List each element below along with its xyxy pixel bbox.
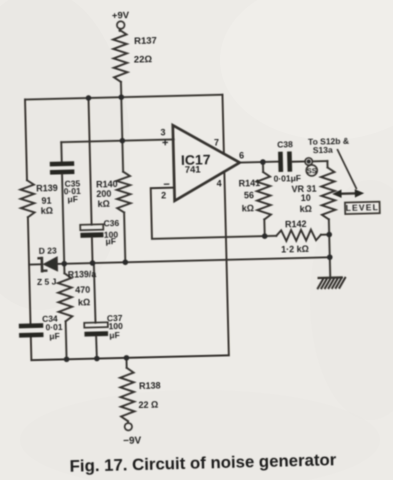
svg-text:kΩ: kΩ bbox=[41, 206, 53, 216]
svg-text:22Ω: 22Ω bbox=[134, 54, 153, 65]
svg-text:R141: R141 bbox=[239, 178, 261, 189]
svg-text:SS: SS bbox=[307, 166, 317, 175]
svg-text:22 Ω: 22 Ω bbox=[138, 400, 158, 410]
svg-text:3: 3 bbox=[160, 127, 165, 137]
svg-text:μF: μF bbox=[105, 236, 116, 246]
svg-text:470: 470 bbox=[75, 285, 90, 295]
svg-text:kΩ: kΩ bbox=[300, 204, 312, 214]
svg-text:2: 2 bbox=[161, 190, 166, 200]
svg-text:S13a: S13a bbox=[313, 145, 333, 155]
svg-text:Z 5 J: Z 5 J bbox=[37, 276, 57, 286]
svg-text:kΩ: kΩ bbox=[97, 199, 109, 209]
svg-text:R139: R139 bbox=[36, 183, 58, 194]
svg-text:+9V: +9V bbox=[112, 10, 130, 21]
svg-text:kΩ: kΩ bbox=[78, 297, 90, 307]
svg-text:μF: μF bbox=[67, 194, 78, 204]
svg-text:4: 4 bbox=[217, 179, 222, 189]
svg-text:−9V: −9V bbox=[123, 435, 142, 446]
svg-text:R142: R142 bbox=[285, 219, 307, 230]
svg-text:200: 200 bbox=[96, 188, 111, 198]
svg-text:D 23: D 23 bbox=[39, 246, 57, 256]
svg-text:+: + bbox=[162, 137, 169, 149]
svg-text:C36: C36 bbox=[103, 218, 119, 228]
svg-text:C38: C38 bbox=[277, 139, 293, 149]
svg-text:μF: μF bbox=[49, 331, 60, 341]
svg-text:1·2 kΩ: 1·2 kΩ bbox=[281, 244, 309, 255]
svg-text:kΩ: kΩ bbox=[242, 203, 254, 213]
svg-text:741: 741 bbox=[185, 164, 202, 175]
svg-text:μF: μF bbox=[109, 330, 120, 340]
svg-text:6: 6 bbox=[239, 150, 244, 160]
svg-text:R138: R138 bbox=[139, 380, 161, 391]
svg-text:0·01μF: 0·01μF bbox=[273, 173, 301, 184]
svg-text:91: 91 bbox=[41, 196, 51, 206]
svg-text:R137: R137 bbox=[134, 36, 157, 48]
svg-text:56: 56 bbox=[244, 190, 254, 200]
svg-text:7: 7 bbox=[214, 138, 219, 148]
svg-text:10: 10 bbox=[301, 193, 311, 203]
svg-text:R139/a: R139/a bbox=[68, 269, 97, 280]
svg-text:LEVEL: LEVEL bbox=[346, 202, 380, 213]
